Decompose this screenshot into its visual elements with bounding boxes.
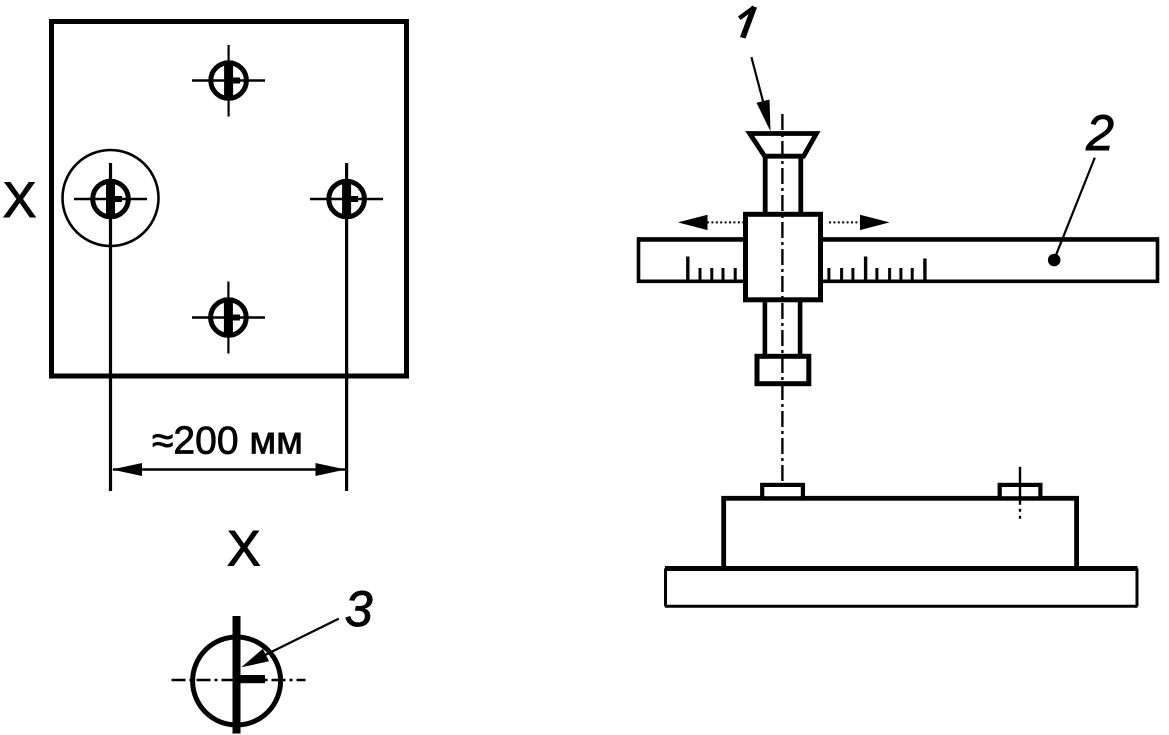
view label X (above detail) bbox=[227, 521, 260, 577]
detail boundary circle around hole H2 bbox=[63, 150, 159, 246]
ruler bar (label 2 part) bbox=[637, 239, 1159, 281]
slider block bbox=[746, 214, 821, 299]
dimension line with arrowheads bbox=[112, 463, 346, 476]
svg-text:X: X bbox=[227, 521, 260, 577]
tool centerline (dash-dot) bbox=[781, 114, 783, 521]
svg-text:≈200 мм: ≈200 мм bbox=[152, 420, 303, 463]
label 3 bbox=[345, 581, 373, 637]
lower stem bbox=[765, 299, 800, 357]
right motion arrow bbox=[829, 215, 890, 230]
plate outline (square view) bbox=[52, 22, 407, 377]
hole H2 (left) centerlines bbox=[74, 163, 147, 491]
left stud bbox=[762, 485, 803, 498]
ruler scale ticks bbox=[688, 257, 925, 281]
hole H4 (bottom) symbol bbox=[211, 298, 247, 338]
upper stem bbox=[765, 156, 801, 216]
right stud centerline bbox=[1019, 467, 1021, 519]
detail horizontal centerline bbox=[172, 679, 306, 681]
hole H2 (left) symbol bbox=[93, 179, 129, 219]
dimension text ≈200 мм bbox=[152, 420, 303, 463]
svg-text:2: 2 bbox=[1085, 105, 1114, 161]
hole H3 (right) centerlines bbox=[310, 163, 383, 491]
hole H1 (top) centerlines bbox=[192, 45, 265, 117]
hole H1 (top) symbol bbox=[211, 61, 247, 101]
leader arrow of label 1 bbox=[751, 57, 770, 131]
weld point mark (thick bar) bbox=[236, 675, 265, 683]
hole H4 (bottom) centerlines bbox=[192, 282, 265, 354]
right stud bbox=[1000, 485, 1041, 498]
left motion arrow bbox=[678, 215, 743, 230]
leader arrow of label 3 bbox=[241, 619, 339, 668]
hole H3 (right) symbol bbox=[329, 179, 365, 219]
bottom cap bbox=[757, 356, 809, 383]
svg-text:X: X bbox=[3, 172, 36, 228]
centering funnel (top of tool) bbox=[750, 134, 817, 157]
svg-text:3: 3 bbox=[345, 581, 373, 637]
detail thick seam line (vertical) bbox=[233, 616, 241, 734]
bottom plate bbox=[665, 569, 1138, 607]
label 1 bbox=[738, 6, 757, 39]
leader of label 2 with dot bbox=[1048, 158, 1095, 267]
view label X (left of plate) bbox=[3, 172, 36, 228]
label 2 bbox=[1085, 105, 1114, 161]
base block bbox=[724, 498, 1077, 568]
detail view circle bbox=[193, 637, 281, 725]
